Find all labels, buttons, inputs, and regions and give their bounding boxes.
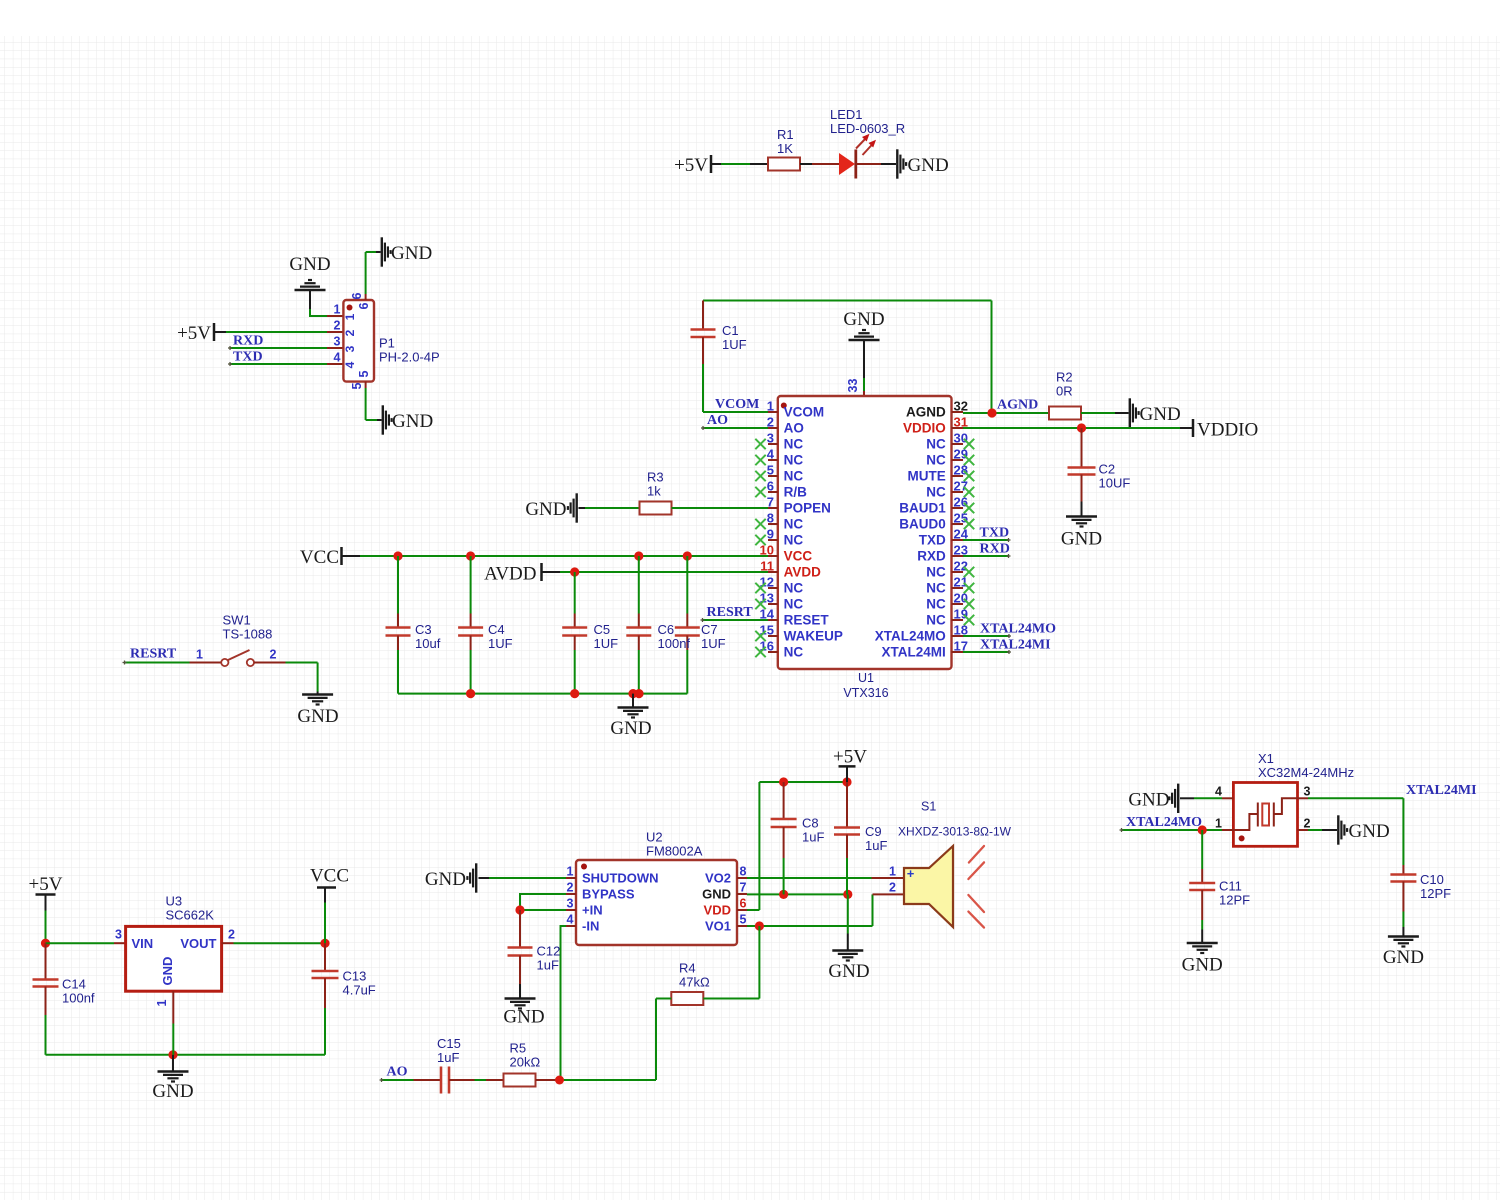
svg-text:XTAL24MO: XTAL24MO [1126,815,1202,830]
svg-text:LED-0603_R: LED-0603_R [830,121,905,136]
svg-text:VO1: VO1 [705,919,731,934]
svg-text:GND: GND [610,718,651,739]
svg-text:MUTE: MUTE [908,469,946,484]
svg-text:1uF: 1uF [537,958,559,973]
svg-text:5: 5 [350,382,364,389]
svg-text:GND: GND [392,411,433,432]
svg-text:AO: AO [387,1065,408,1080]
svg-text:AVDD: AVDD [484,564,536,585]
svg-text:XC32M4-24MHz: XC32M4-24MHz [1258,765,1354,780]
svg-text:4: 4 [334,351,341,365]
svg-text:3: 3 [115,928,122,942]
svg-text:GND: GND [843,309,884,330]
svg-text:0R: 0R [1056,384,1073,399]
svg-text:PH-2.0-4P: PH-2.0-4P [379,350,440,365]
svg-text:1: 1 [567,865,574,879]
svg-text:2: 2 [767,415,774,430]
svg-text:22: 22 [954,559,968,574]
svg-text:GND: GND [828,961,869,982]
svg-text:47kΩ: 47kΩ [679,975,710,990]
svg-text:XTAL24MO: XTAL24MO [980,622,1056,637]
svg-text:1UF: 1UF [594,636,619,651]
svg-text:GND: GND [1128,789,1169,810]
svg-text:NC: NC [926,597,946,612]
svg-text:33: 33 [846,379,860,393]
svg-text:WAKEUP: WAKEUP [784,629,843,644]
svg-text:29: 29 [954,447,968,462]
svg-text:4: 4 [767,447,775,462]
svg-text:C3: C3 [415,622,432,637]
svg-text:27: 27 [954,479,968,494]
svg-text:C7: C7 [701,622,718,637]
svg-text:2: 2 [228,928,235,942]
svg-text:21: 21 [954,575,968,590]
svg-text:NC: NC [784,581,804,596]
svg-text:C6: C6 [658,622,675,637]
svg-text:8: 8 [767,511,774,526]
svg-text:R2: R2 [1056,370,1073,385]
svg-text:+5V: +5V [29,874,63,895]
svg-text:1: 1 [334,303,341,317]
svg-text:SC662K: SC662K [166,908,215,923]
svg-text:6: 6 [767,479,774,494]
svg-text:C15: C15 [437,1036,461,1051]
svg-text:XTAL24MI: XTAL24MI [882,645,946,660]
svg-text:+: + [907,866,915,881]
svg-text:C12: C12 [537,944,561,959]
svg-text:VCC: VCC [300,547,339,568]
svg-text:C10: C10 [1420,872,1444,887]
svg-text:28: 28 [954,463,968,478]
svg-text:AVDD: AVDD [784,565,822,580]
svg-text:GND: GND [702,887,731,902]
svg-text:2: 2 [889,881,896,895]
svg-text:1uF: 1uF [437,1050,459,1065]
svg-text:C2: C2 [1099,462,1116,477]
svg-text:2: 2 [1304,817,1311,831]
svg-text:TXD: TXD [233,350,263,365]
svg-text:VDDIO: VDDIO [1197,420,1258,441]
svg-text:NC: NC [784,645,804,660]
svg-text:NC: NC [926,485,946,500]
svg-text:2: 2 [567,881,574,895]
svg-text:TXD: TXD [919,533,946,548]
svg-text:10uf: 10uf [415,636,441,651]
svg-text:GND: GND [297,706,338,727]
svg-text:1: 1 [155,999,169,1006]
svg-text:1uF: 1uF [865,838,887,853]
svg-text:U2: U2 [646,830,663,845]
svg-text:NC: NC [926,453,946,468]
svg-text:3: 3 [567,897,574,911]
svg-text:19: 19 [954,607,968,622]
svg-text:NC: NC [926,581,946,596]
svg-text:5: 5 [357,370,371,377]
svg-text:+5V: +5V [833,747,867,768]
svg-text:RESET: RESET [784,613,830,628]
svg-text:2: 2 [334,319,341,333]
svg-text:NC: NC [784,597,804,612]
svg-text:C14: C14 [62,977,86,992]
svg-text:5: 5 [767,463,774,478]
svg-text:NC: NC [784,533,804,548]
svg-text:C4: C4 [488,622,505,637]
svg-text:20kΩ: 20kΩ [510,1055,541,1070]
svg-text:POPEN: POPEN [784,501,831,516]
svg-text:1K: 1K [777,141,793,156]
svg-text:C11: C11 [1219,879,1242,894]
svg-text:NC: NC [926,565,946,580]
svg-text:AO: AO [707,413,728,428]
svg-text:GND: GND [391,243,432,264]
svg-text:GND: GND [289,254,330,275]
svg-text:U3: U3 [166,894,183,909]
svg-text:AGND: AGND [906,405,946,420]
svg-text:12PF: 12PF [1420,886,1451,901]
svg-text:1: 1 [889,865,896,879]
svg-text:4: 4 [567,913,574,927]
svg-text:NC: NC [784,453,804,468]
svg-text:RXD: RXD [233,334,263,349]
svg-text:BAUD1: BAUD1 [899,501,946,516]
svg-text:3: 3 [767,431,774,446]
svg-text:+IN: +IN [582,903,603,918]
svg-text:GND: GND [425,869,466,890]
svg-text:SW1: SW1 [223,613,251,628]
svg-text:1UF: 1UF [722,337,747,352]
svg-text:3: 3 [343,345,357,352]
svg-text:4: 4 [1215,785,1222,799]
svg-text:100nf: 100nf [62,991,95,1006]
svg-text:GND: GND [1383,947,1424,968]
svg-text:VDDIO: VDDIO [903,421,946,436]
svg-text:6: 6 [357,302,371,309]
svg-text:NC: NC [784,517,804,532]
svg-text:1UF: 1UF [488,636,513,651]
svg-text:GND: GND [503,1007,544,1028]
svg-text:XTAL24MO: XTAL24MO [875,629,946,644]
svg-text:S1: S1 [921,800,936,814]
svg-text:4: 4 [343,361,357,368]
svg-text:1k: 1k [647,484,661,499]
svg-text:U1: U1 [858,671,874,685]
svg-text:NC: NC [784,469,804,484]
svg-text:7: 7 [740,881,747,895]
svg-text:XHXDZ-3013-8Ω-1W: XHXDZ-3013-8Ω-1W [898,825,1012,839]
svg-text:BAUD0: BAUD0 [899,517,946,532]
svg-text:R5: R5 [510,1041,527,1056]
svg-text:TXD: TXD [980,526,1010,541]
svg-text:VCOM: VCOM [784,405,825,420]
svg-text:VCC: VCC [310,866,349,887]
svg-text:C9: C9 [865,824,882,839]
svg-text:TS-1088: TS-1088 [223,627,273,642]
svg-text:VCC: VCC [784,549,813,564]
svg-text:RXD: RXD [980,542,1010,557]
svg-text:5: 5 [740,913,747,927]
svg-text:25: 25 [954,511,968,526]
svg-text:VO2: VO2 [705,871,731,886]
svg-text:RESRT: RESRT [707,605,754,620]
svg-text:GND: GND [152,1081,193,1102]
svg-text:GND: GND [908,155,949,176]
svg-text:SHUTDOWN: SHUTDOWN [582,871,659,886]
svg-text:RXD: RXD [917,549,946,564]
svg-text:BYPASS: BYPASS [582,887,635,902]
svg-text:VCOM: VCOM [715,397,759,412]
svg-text:3: 3 [1304,785,1311,799]
svg-text:LED1: LED1 [830,107,863,122]
svg-text:C1: C1 [722,323,739,338]
svg-text:4.7uF: 4.7uF [343,983,376,998]
svg-text:30: 30 [954,431,968,446]
svg-text:RESRT: RESRT [130,647,177,662]
svg-text:1: 1 [343,313,357,320]
svg-text:+5V: +5V [674,155,708,176]
svg-text:1uF: 1uF [802,830,824,845]
svg-text:R/B: R/B [784,485,808,500]
svg-text:VTX316: VTX316 [843,686,888,700]
svg-text:2: 2 [270,648,277,662]
svg-text:R1: R1 [777,127,794,142]
svg-text:6: 6 [740,897,747,911]
svg-text:AO: AO [784,421,804,436]
svg-text:32: 32 [954,399,968,414]
svg-text:XTAL24MI: XTAL24MI [1406,783,1477,798]
svg-text:3: 3 [334,335,341,349]
svg-text:FM8002A: FM8002A [646,844,703,859]
svg-text:AGND: AGND [997,398,1038,413]
svg-text:GND: GND [1061,529,1102,550]
svg-text:NC: NC [926,613,946,628]
svg-text:1: 1 [767,399,774,414]
svg-text:P1: P1 [379,336,395,351]
svg-text:100nf: 100nf [658,636,691,651]
svg-text:NC: NC [784,437,804,452]
svg-text:-IN: -IN [582,919,599,934]
svg-text:GND: GND [1182,955,1223,976]
svg-text:20: 20 [954,591,968,606]
svg-text:NC: NC [926,437,946,452]
svg-text:8: 8 [740,865,747,879]
svg-text:1: 1 [196,648,203,662]
svg-text:2: 2 [343,329,357,336]
svg-text:C13: C13 [343,969,367,984]
svg-text:C5: C5 [594,622,611,637]
svg-text:1UF: 1UF [701,636,726,651]
svg-text:+5V: +5V [177,323,211,344]
svg-text:VDD: VDD [704,903,731,918]
svg-text:R4: R4 [679,961,696,976]
svg-text:VIN: VIN [132,936,154,951]
svg-text:1: 1 [1215,817,1222,831]
svg-text:12PF: 12PF [1219,893,1250,908]
svg-text:26: 26 [954,495,968,510]
svg-text:R3: R3 [647,470,664,485]
svg-text:GND: GND [160,957,175,986]
svg-text:X1: X1 [1258,751,1274,766]
svg-text:C8: C8 [802,816,819,831]
svg-text:10UF: 10UF [1099,476,1131,491]
svg-text:GND: GND [1349,821,1390,842]
svg-text:GND: GND [525,499,566,520]
svg-text:6: 6 [350,292,364,299]
svg-text:9: 9 [767,527,774,542]
svg-text:GND: GND [1140,404,1181,425]
svg-text:XTAL24MI: XTAL24MI [980,638,1051,653]
svg-text:VOUT: VOUT [180,936,216,951]
